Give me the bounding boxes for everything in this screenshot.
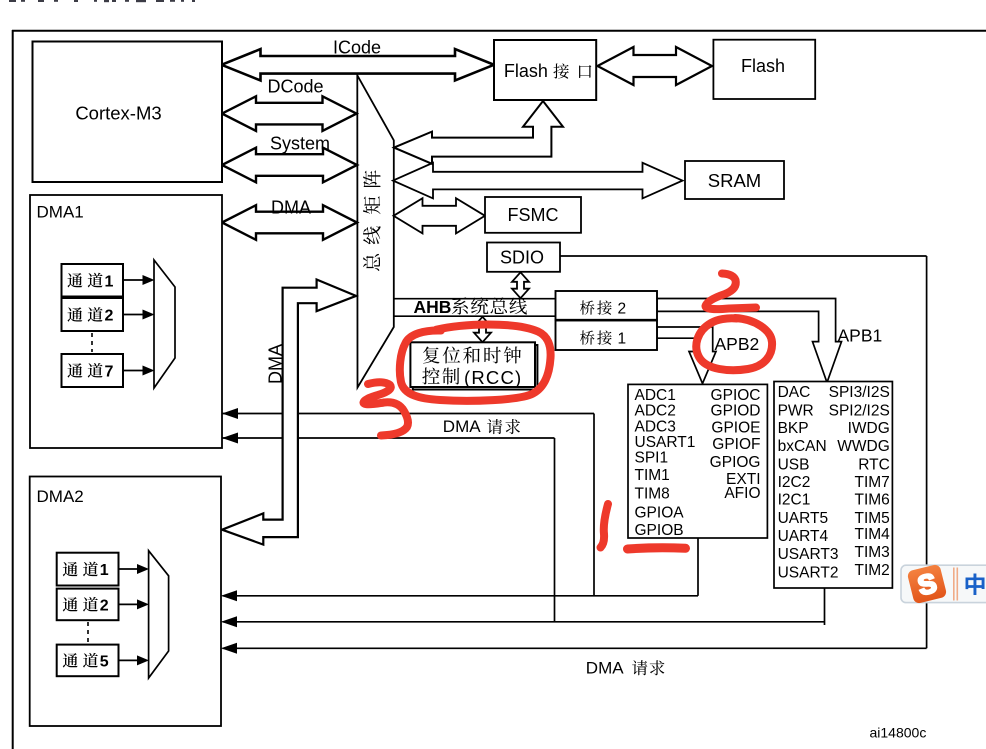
svg-text:ADC2: ADC2: [635, 403, 676, 420]
outer border top: [12, 30, 986, 32]
svg-text:TIM4: TIM4: [854, 526, 890, 543]
Sogou IME panel background: [901, 565, 986, 602]
DMA2 mux: [149, 551, 169, 678]
small arrow AHB-RCC: [474, 317, 491, 342]
svg-text:GPIOG: GPIOG: [710, 454, 761, 471]
SRAM arrow: [393, 163, 683, 199]
DMA2 channel1 box: [57, 553, 119, 586]
red annotation underline GPIOB: [628, 548, 686, 549]
bridge1 to APB2 funnel arrow: [657, 327, 716, 384]
svg-text:Flash: Flash: [504, 61, 548, 81]
DMA1 channel7 box: [62, 354, 124, 387]
svg-text:USART2: USART2: [778, 564, 839, 581]
svg-text:APB1: APB1: [838, 326, 883, 346]
svg-text:USART3: USART3: [778, 546, 839, 563]
svg-text:IWDG: IWDG: [848, 420, 890, 437]
svg-text:Flash: Flash: [741, 56, 785, 76]
Sogou separators: [953, 568, 955, 601]
FSMC arrow: [394, 198, 486, 233]
elbow arrow matrix down to DMA2: [222, 280, 356, 545]
vertical junction x554: [554, 438, 556, 622]
svg-text:FSMC: FSMC: [508, 205, 559, 225]
svg-text:2: 2: [100, 597, 109, 614]
svg-text:ADC3: ADC3: [635, 419, 676, 436]
svg-text:TIM2: TIM2: [854, 562, 889, 579]
svg-text:AFIO: AFIO: [724, 485, 760, 502]
svg-text:5: 5: [100, 653, 109, 670]
right vertical loop line: [926, 256, 928, 648]
Flash interface to Flash arrow: [598, 47, 713, 85]
svg-text:DMA: DMA: [271, 198, 311, 218]
bottom DMA request line: [223, 647, 927, 649]
DCode arrow: [222, 96, 357, 131]
DMA arrow DMA1 to matrix: [222, 205, 357, 240]
svg-text:DMA: DMA: [586, 659, 624, 678]
red annotation squiggle 3: [364, 382, 409, 435]
DMA2 channel2 box: [57, 589, 119, 621]
svg-text:DMA: DMA: [443, 417, 481, 436]
svg-text:USART1: USART1: [635, 434, 696, 451]
svg-text:ai14800c: ai14800c: [870, 725, 927, 741]
svg-text:1: 1: [100, 562, 109, 579]
red annotation loop around RCC: [400, 325, 551, 401]
svg-text:ICode: ICode: [333, 38, 381, 58]
bridge2 to APB1 funnel arrow: [657, 299, 842, 383]
APB1 peripherals box: [774, 382, 892, 589]
DMA2 channel5 box: [57, 645, 119, 677]
Sogou 中 indicator: [966, 573, 985, 595]
Flash interface box: [494, 40, 596, 100]
red annotation tick near GPIOB: [601, 504, 609, 548]
svg-text:SPI1: SPI1: [635, 450, 669, 467]
RCC box shadow: [413, 345, 538, 390]
svg-text:2: 2: [105, 308, 114, 325]
bridge2 box 桥接2: [556, 291, 658, 320]
svg-text:TIM1: TIM1: [635, 467, 670, 484]
vertical junction x594: [593, 414, 595, 596]
vertical from APB2 box: [697, 538, 699, 596]
svg-text:I2C1: I2C1: [778, 492, 811, 509]
DMA2 box: [30, 477, 221, 727]
DMA1 channel1 box: [62, 264, 124, 297]
top cut-off title text fragments: [9, 0, 16, 2]
svg-text:System: System: [270, 134, 330, 154]
DMA1 box: [30, 195, 222, 448]
RCC box 复位和时钟控制: [410, 342, 535, 387]
elbow arrow matrix to Flash interface: [394, 101, 563, 164]
svg-text:WWDG: WWDG: [837, 438, 890, 455]
svg-text:GPIOC: GPIOC: [711, 387, 761, 404]
line A APB2 to DMA2: [223, 595, 699, 597]
svg-text:Cortex-M3: Cortex-M3: [75, 103, 161, 124]
SRAM box: [685, 161, 784, 199]
svg-text:TIM5: TIM5: [854, 510, 889, 527]
svg-text:GPIOE: GPIOE: [711, 419, 760, 436]
svg-text:GPIOB: GPIOB: [635, 522, 684, 539]
label 总线矩阵 rotated: [363, 254, 380, 271]
FSMC box: [485, 197, 581, 233]
bus matrix trapezoid 总线矩阵: [357, 75, 394, 387]
DMA2 dashed line: [87, 622, 89, 642]
svg-text:BKP: BKP: [778, 420, 809, 437]
Cortex-M3 box: [33, 42, 223, 183]
svg-text:DMA2: DMA2: [37, 487, 84, 506]
red annotation circle around APB2: [696, 318, 772, 370]
arrowhead into DMA2 lineA: [221, 590, 237, 601]
svg-text:ADC1: ADC1: [635, 387, 676, 404]
svg-text:I2C2: I2C2: [778, 474, 811, 491]
svg-text:1: 1: [105, 273, 114, 290]
svg-text:DAC: DAC: [778, 384, 811, 401]
arrowhead into DMA1 line2: [222, 433, 238, 444]
svg-text:DMA: DMA: [266, 344, 286, 384]
Flash box: [713, 40, 815, 99]
svg-text:DCode: DCode: [267, 77, 323, 97]
DMA2 mux input arrows: [119, 568, 139, 570]
svg-text:DMA1: DMA1: [37, 203, 84, 222]
svg-text:SPI3/I2S: SPI3/I2S: [829, 384, 890, 401]
svg-text:RTC: RTC: [858, 456, 890, 473]
vertical from APB1 box: [824, 588, 826, 625]
svg-text:2: 2: [618, 301, 627, 318]
svg-text:TIM8: TIM8: [635, 485, 670, 502]
svg-text:GPIOA: GPIOA: [635, 504, 685, 521]
small arrow SDIO-AHB: [512, 272, 529, 298]
svg-text:1: 1: [618, 331, 627, 348]
svg-text:AHB: AHB: [414, 297, 452, 317]
svg-text:GPIOF: GPIOF: [712, 436, 760, 453]
red annotation squiggle 2: [706, 274, 757, 310]
svg-text:TIM6: TIM6: [854, 492, 889, 509]
svg-text:UART4: UART4: [778, 528, 829, 545]
bridge1 box 桥接1: [556, 321, 658, 351]
line B APB1 to DMA2: [223, 621, 825, 623]
ICode arrow: [222, 49, 495, 80]
line1 to DMA1: [222, 413, 594, 415]
svg-text:SPI2/I2S: SPI2/I2S: [829, 402, 890, 419]
svg-text:TIM7: TIM7: [854, 474, 889, 491]
SDIO DMA request line right: [560, 255, 927, 257]
svg-text:7: 7: [105, 364, 114, 381]
svg-text:USB: USB: [778, 456, 810, 473]
arrowhead into DMA1 line1: [222, 408, 238, 419]
arrowhead into DMA2 lineC: [221, 643, 237, 654]
Sogou S logo tilted square: [907, 564, 948, 605]
DMA1 mux input arrows: [123, 279, 144, 281]
APB2 peripherals box: [628, 384, 767, 538]
svg-text:bxCAN: bxCAN: [778, 438, 827, 455]
DMA1 dashed line: [91, 333, 93, 352]
arrowhead into DMA2 lineB: [221, 616, 237, 627]
svg-text:PWR: PWR: [778, 402, 814, 419]
svg-text:APB2: APB2: [715, 334, 760, 354]
DMA1 mux: [154, 260, 175, 388]
DMA1 channel2 box: [62, 298, 124, 331]
svg-text:GPIOD: GPIOD: [711, 403, 761, 420]
SDIO box: [487, 243, 560, 272]
svg-text:SRAM: SRAM: [708, 170, 761, 191]
svg-text:SDIO: SDIO: [500, 248, 544, 268]
line2 to DMA1: [222, 437, 555, 439]
svg-text:(RCC): (RCC): [464, 367, 522, 388]
System arrow: [222, 148, 357, 183]
outer border left: [12, 30, 14, 749]
svg-text:UART5: UART5: [778, 510, 829, 527]
svg-text:TIM3: TIM3: [854, 544, 889, 561]
AHB system bus lines: [394, 298, 555, 300]
